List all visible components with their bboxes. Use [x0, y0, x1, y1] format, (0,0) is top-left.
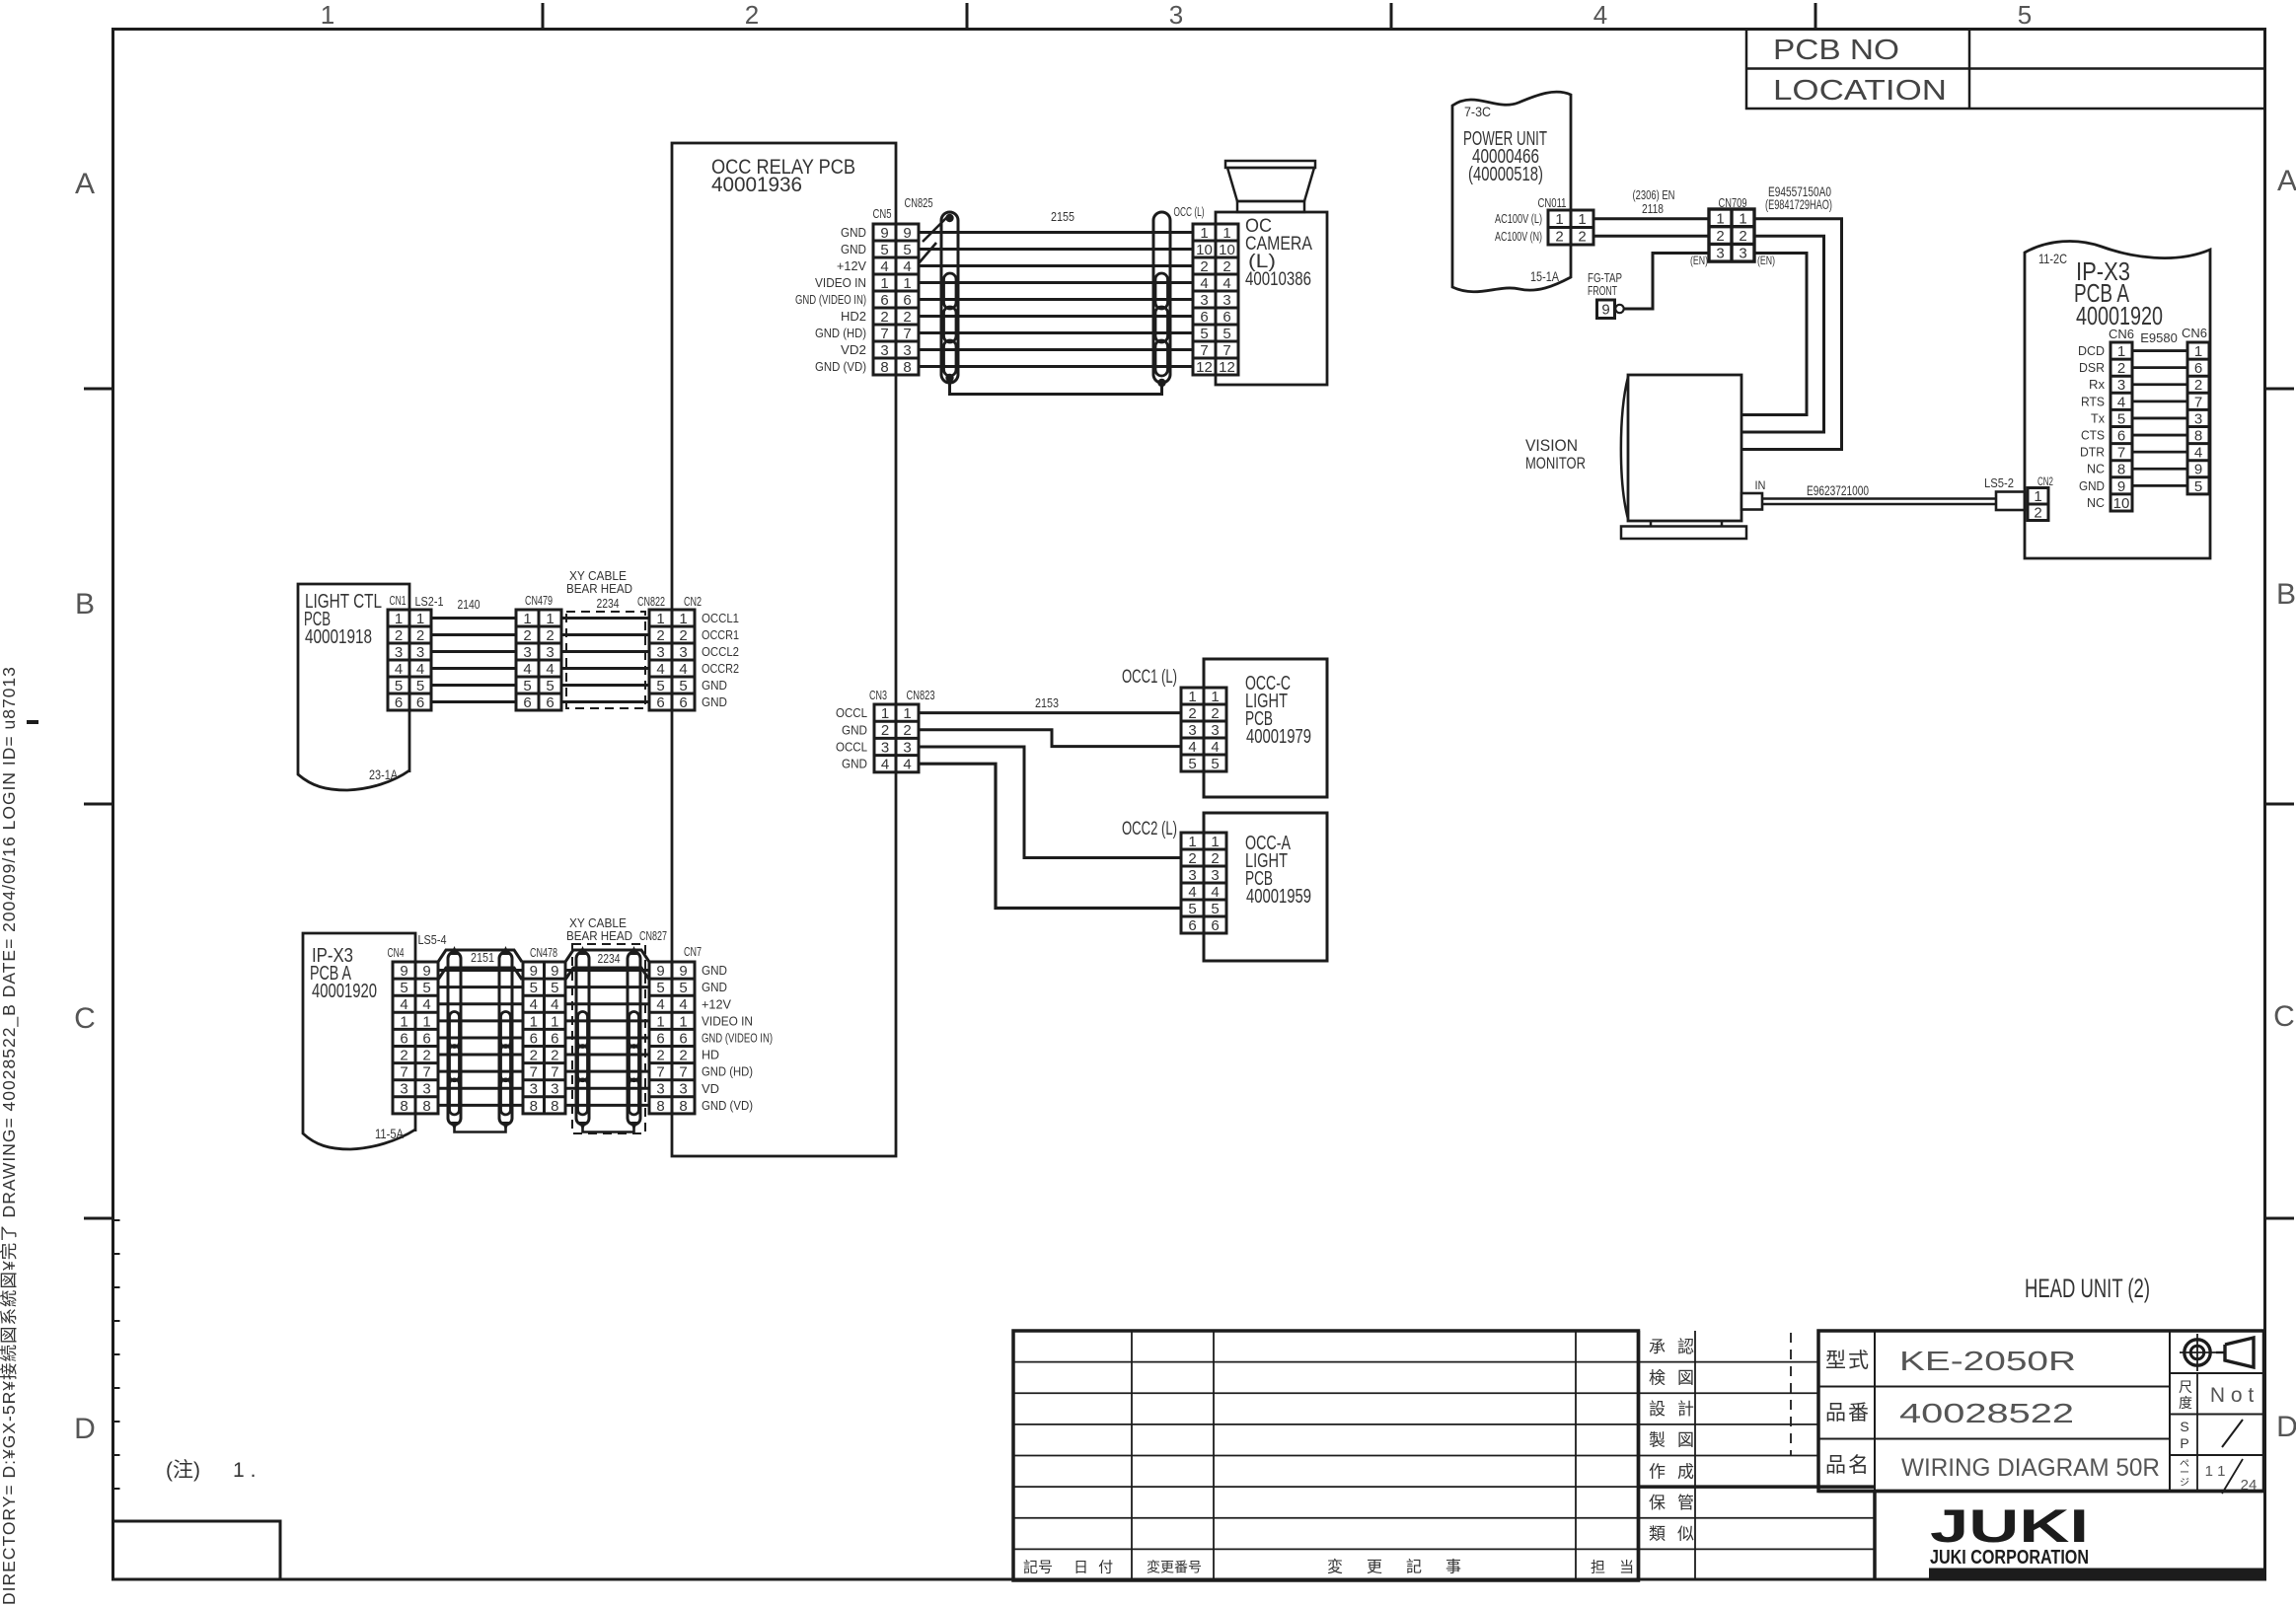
svg-text:1: 1 — [1200, 225, 1208, 242]
svg-text:3: 3 — [1188, 867, 1196, 884]
svg-text:3: 3 — [551, 1081, 558, 1098]
svg-text:8: 8 — [656, 1098, 664, 1115]
svg-text:2: 2 — [400, 1047, 407, 1063]
svg-text:GND (HD): GND (HD) — [815, 326, 866, 340]
svg-text:40001979: 40001979 — [1246, 726, 1311, 748]
svg-text:9: 9 — [422, 963, 430, 980]
svg-text:2153: 2153 — [1035, 695, 1059, 710]
connector OCC(L) camera pins — [1193, 224, 1238, 376]
svg-text:5: 5 — [1222, 326, 1230, 342]
svg-text:9: 9 — [2194, 462, 2202, 478]
svg-text:C: C — [2273, 1000, 2295, 1033]
svg-text:VIDEO IN: VIDEO IN — [702, 1013, 753, 1028]
connector CN6 (IP-X3) — [2111, 342, 2132, 512]
svg-text:BEAR HEAD: BEAR HEAD — [566, 581, 632, 596]
svg-text:3: 3 — [1211, 867, 1219, 884]
svg-text:OCCL2: OCCL2 — [702, 644, 739, 659]
svg-text:6: 6 — [679, 1030, 687, 1047]
page cell — [2170, 1455, 2264, 1494]
svg-text:Rx: Rx — [2089, 377, 2106, 392]
connector CN822/CN2 — [649, 610, 695, 711]
svg-text:2140: 2140 — [458, 597, 481, 612]
svg-text:型式: 型式 — [1825, 1350, 1871, 1372]
svg-text:6: 6 — [400, 1030, 407, 1047]
svg-text:6: 6 — [546, 694, 554, 711]
svg-text:9: 9 — [679, 963, 687, 980]
svg-text:6: 6 — [416, 694, 424, 711]
svg-text:製図: 製図 — [1649, 1431, 1706, 1450]
svg-text:8: 8 — [400, 1098, 407, 1115]
svg-text:AC100V (N): AC100V (N) — [1495, 229, 1542, 244]
svg-text:GND (VD): GND (VD) — [702, 1098, 753, 1113]
svg-text:3: 3 — [656, 1081, 664, 1098]
svg-text:2: 2 — [745, 0, 759, 30]
svg-text:1: 1 — [2034, 488, 2041, 505]
svg-text:6: 6 — [880, 292, 888, 309]
svg-text:9: 9 — [903, 225, 911, 242]
svg-text:4: 4 — [2117, 394, 2125, 410]
svg-text:GND: GND — [842, 757, 867, 771]
svg-text:(EN): (EN) — [1690, 254, 1708, 267]
svg-text:4: 4 — [679, 661, 687, 678]
svg-text:2: 2 — [679, 1047, 687, 1063]
svg-text:OCCL: OCCL — [836, 740, 867, 755]
svg-text:6: 6 — [1200, 309, 1208, 326]
wires CN4 chain — [438, 971, 649, 1106]
svg-text:CN825: CN825 — [905, 195, 933, 210]
svg-text:2: 2 — [903, 309, 911, 326]
svg-text:DIRECTORY= D:¥GX-5R¥接続図系統図¥完了: DIRECTORY= D:¥GX-5R¥接続図系統図¥完了 DRAWING= 4… — [0, 666, 20, 1605]
svg-text:D: D — [2276, 1411, 2296, 1443]
svg-text:7: 7 — [400, 1064, 407, 1081]
svg-text:NC: NC — [2087, 495, 2105, 510]
svg-text:3: 3 — [679, 644, 687, 661]
svg-text:2: 2 — [1716, 228, 1724, 245]
label XY CABLE BEAR HEAD (lower) — [566, 915, 632, 943]
svg-text:日 付: 日 付 — [1074, 1560, 1116, 1576]
shield return wire — [950, 381, 1162, 395]
CN2 signal labels — [702, 611, 739, 709]
svg-text:CN479: CN479 — [525, 593, 553, 608]
svg-text:6: 6 — [530, 1030, 538, 1047]
svg-text:CN2: CN2 — [2037, 474, 2053, 488]
svg-text:2118: 2118 — [1642, 201, 1664, 216]
svg-text:3: 3 — [1211, 722, 1219, 739]
svg-text:2: 2 — [656, 627, 664, 644]
connector CN3/CN823 — [874, 704, 919, 773]
svg-text:3: 3 — [656, 644, 664, 661]
wires CN823 to OCC light PCBs — [919, 713, 1181, 909]
svg-text:品名: 品名 — [1825, 1454, 1871, 1477]
CN3 signal labels — [836, 705, 867, 771]
svg-text:OCCR2: OCCR2 — [702, 661, 739, 676]
svg-text:4: 4 — [1200, 275, 1208, 292]
svg-text:3: 3 — [546, 644, 554, 661]
small fold ticks — [27, 722, 120, 1489]
svg-text:RTS: RTS — [2081, 394, 2105, 408]
PCB block LIGHT CTL PCB 40001918 — [298, 584, 409, 790]
svg-text:5: 5 — [400, 980, 407, 996]
svg-text:2234: 2234 — [597, 596, 620, 611]
svg-text:9: 9 — [656, 963, 664, 980]
cable E9623721000 — [1762, 482, 1996, 504]
svg-text:23-1A: 23-1A — [369, 766, 399, 782]
svg-text:3: 3 — [422, 1081, 430, 1098]
label (2306) EN / 2118 — [1633, 187, 1675, 216]
camera lens — [1225, 161, 1315, 212]
svg-text:3: 3 — [880, 342, 888, 359]
svg-text:GND: GND — [702, 963, 727, 978]
svg-text:VD: VD — [702, 1081, 719, 1096]
svg-text:2: 2 — [1211, 705, 1219, 722]
svg-text:6: 6 — [422, 1030, 430, 1047]
svg-text:VISION: VISION — [1525, 436, 1578, 455]
cable 2151 shield drawing — [438, 946, 522, 1132]
svg-text:5: 5 — [1211, 756, 1219, 772]
svg-text:8: 8 — [903, 359, 911, 376]
svg-text:1: 1 — [523, 611, 531, 627]
svg-text:IN: IN — [1755, 478, 1766, 492]
svg-text:BEAR HEAD: BEAR HEAD — [566, 928, 632, 943]
svg-text:2: 2 — [523, 627, 531, 644]
svg-text:5: 5 — [2194, 478, 2202, 495]
svg-text:1: 1 — [1578, 211, 1586, 228]
svg-text:4: 4 — [400, 996, 407, 1013]
svg-text:B: B — [75, 588, 95, 620]
svg-text:5: 5 — [880, 242, 888, 258]
svg-text:2: 2 — [546, 627, 554, 644]
svg-text:CN2: CN2 — [684, 594, 702, 609]
svg-text:9: 9 — [551, 963, 558, 980]
svg-text:E9580: E9580 — [2140, 330, 2178, 345]
svg-text:CN6: CN6 — [2109, 327, 2134, 341]
title info block — [1818, 1331, 2264, 1492]
svg-text:4: 4 — [546, 661, 554, 678]
svg-text:7: 7 — [422, 1064, 430, 1081]
svg-text:1: 1 — [1716, 210, 1724, 227]
svg-text:AC100V (L): AC100V (L) — [1495, 211, 1542, 226]
wires CN825 to OCC(L) camera — [919, 233, 1193, 367]
svg-text:9: 9 — [880, 225, 888, 242]
svg-text:LS5-2: LS5-2 — [1984, 475, 2014, 490]
svg-text:類似: 類似 — [1649, 1525, 1706, 1544]
svg-text:2: 2 — [1739, 228, 1746, 245]
svg-text:JUKI: JUKI — [1930, 1499, 2089, 1552]
svg-text:8: 8 — [679, 1098, 687, 1115]
svg-text:ジ: ジ — [2180, 1478, 2189, 1489]
svg-text:2: 2 — [2034, 505, 2041, 522]
svg-text:1: 1 — [422, 1013, 430, 1030]
svg-text:2: 2 — [422, 1047, 430, 1063]
svg-text:4: 4 — [679, 996, 687, 1013]
svg-text:8: 8 — [880, 359, 888, 376]
svg-text:8: 8 — [422, 1098, 430, 1115]
svg-text:HEAD UNIT (2): HEAD UNIT (2) — [2025, 1274, 2150, 1303]
svg-text:2155: 2155 — [1051, 209, 1074, 224]
svg-text:3: 3 — [881, 739, 889, 756]
svg-text:4: 4 — [530, 996, 538, 1013]
svg-text:1: 1 — [679, 611, 687, 627]
svg-text:度: 度 — [2179, 1395, 2192, 1411]
svg-text:保管: 保管 — [1649, 1494, 1706, 1512]
svg-text:担 当: 担 当 — [1591, 1560, 1639, 1576]
svg-text:HD2: HD2 — [841, 309, 866, 324]
svg-text:11-5A: 11-5A — [375, 1126, 405, 1141]
PCB NO / LOCATION table — [1746, 30, 2265, 109]
svg-text:10: 10 — [1196, 242, 1213, 258]
svg-text:GND (HD): GND (HD) — [702, 1064, 753, 1079]
svg-text:尺: 尺 — [2179, 1379, 2192, 1395]
svg-text:8: 8 — [551, 1098, 558, 1115]
POWER UNIT 40000466 block — [1452, 92, 1571, 292]
svg-text:1: 1 — [1555, 211, 1563, 228]
svg-text:6: 6 — [2194, 360, 2202, 377]
svg-text:4: 4 — [395, 661, 403, 678]
svg-text:1: 1 — [551, 1013, 558, 1030]
svg-text:11-2C: 11-2C — [2038, 251, 2067, 266]
svg-text:CN822: CN822 — [637, 594, 665, 609]
svg-text:6: 6 — [551, 1030, 558, 1047]
connector CN011 — [1548, 210, 1593, 246]
svg-text:3: 3 — [1716, 246, 1724, 262]
svg-text:C: C — [74, 1002, 96, 1035]
svg-text:5: 5 — [903, 242, 911, 258]
svg-text:4: 4 — [1222, 275, 1230, 292]
svg-text:4: 4 — [551, 996, 558, 1013]
svg-text:5: 5 — [1200, 326, 1208, 342]
svg-text:OCC2 (L): OCC2 (L) — [1122, 819, 1177, 839]
svg-text:A: A — [2277, 165, 2296, 197]
svg-text:5: 5 — [546, 678, 554, 694]
svg-text:FRONT: FRONT — [1588, 283, 1617, 298]
svg-text:GND: GND — [841, 225, 866, 240]
connector OCC-A connector — [1181, 833, 1226, 934]
JUKI logo block — [1818, 1492, 2264, 1581]
svg-text:2: 2 — [1555, 229, 1563, 246]
monitor IN connector — [1741, 478, 1766, 510]
svg-text:2: 2 — [656, 1047, 664, 1063]
connector CN2 (IP-X3) — [2028, 488, 2048, 522]
svg-text:5: 5 — [656, 980, 664, 996]
svg-text:6: 6 — [1188, 917, 1196, 934]
svg-text:2: 2 — [881, 722, 889, 739]
connector CN1/LS2-1 — [388, 610, 431, 711]
svg-text:+12V: +12V — [702, 996, 731, 1011]
svg-text:検図: 検図 — [1649, 1368, 1706, 1387]
svg-text:CN823: CN823 — [907, 688, 935, 702]
svg-text:5: 5 — [679, 678, 687, 694]
svg-text:1: 1 — [1211, 834, 1219, 850]
svg-text:OCCL1: OCCL1 — [702, 611, 739, 625]
plug LS5-2 — [1984, 475, 2025, 510]
CN6 signal labels — [2078, 343, 2106, 510]
svg-text:7: 7 — [551, 1064, 558, 1081]
svg-text:6: 6 — [903, 292, 911, 309]
svg-text:4: 4 — [422, 996, 430, 1013]
svg-text:PCB NO: PCB NO — [1773, 35, 1899, 66]
approval dashed divider — [1790, 1333, 1792, 1456]
cable 2155 shield at camera — [1153, 212, 1170, 387]
svg-text:5: 5 — [2117, 410, 2125, 427]
OC CAMERA body — [1216, 212, 1327, 385]
revision history table — [1013, 1331, 1639, 1580]
svg-text:5: 5 — [679, 980, 687, 996]
twisted pair marks camera side — [1155, 273, 1168, 376]
svg-text:5: 5 — [395, 678, 403, 694]
svg-text:1: 1 — [1188, 834, 1196, 850]
svg-text:2: 2 — [1578, 229, 1586, 246]
svg-text:CN4: CN4 — [388, 945, 405, 960]
svg-text:CN5: CN5 — [873, 206, 892, 221]
PCB block OCC RELAY PCB 40001936 — [672, 143, 896, 1156]
svg-text:OCC1 (L): OCC1 (L) — [1122, 667, 1177, 688]
labels E94557150A0 — [1765, 183, 1832, 212]
svg-text:1: 1 — [1739, 210, 1746, 227]
projection symbol — [2180, 1334, 2254, 1371]
label XY CABLE BEAR HEAD (upper) — [566, 568, 632, 596]
svg-text:CN6: CN6 — [2182, 326, 2207, 340]
svg-text:5: 5 — [422, 980, 430, 996]
svg-text:3: 3 — [1739, 246, 1746, 262]
svg-text:B: B — [2276, 578, 2296, 611]
connector CN827/CN7 — [649, 962, 695, 1115]
svg-text:10: 10 — [2113, 495, 2130, 512]
svg-text:2: 2 — [416, 627, 424, 644]
svg-text:10: 10 — [1219, 242, 1235, 258]
cable 2234 dashed shield box (lower) — [572, 944, 645, 1133]
svg-text:3: 3 — [903, 739, 911, 756]
svg-text:6: 6 — [1211, 917, 1219, 934]
svg-text:5: 5 — [530, 980, 538, 996]
svg-text:4: 4 — [903, 258, 911, 275]
svg-text:1 1: 1 1 — [2205, 1463, 2226, 1480]
plot directory annotation — [0, 666, 20, 1605]
svg-text:4: 4 — [1593, 0, 1607, 30]
svg-text:(注): (注) — [166, 1459, 200, 1482]
svg-text:7: 7 — [1200, 342, 1208, 359]
SP cell — [2170, 1415, 2264, 1452]
svg-text:設計: 設計 — [1649, 1400, 1706, 1419]
PCB block IP-X3 PCB A 40001920 (lower) — [303, 933, 415, 1149]
svg-text:3: 3 — [903, 342, 911, 359]
PCB block IP-X3 PCB A 40001920 (right) — [2025, 241, 2210, 558]
svg-text:4: 4 — [523, 661, 531, 678]
svg-text:CN011: CN011 — [1538, 195, 1567, 210]
svg-text:OCC (L): OCC (L) — [1174, 204, 1205, 219]
svg-text:12: 12 — [1196, 359, 1213, 376]
svg-text:2: 2 — [1188, 705, 1196, 722]
cable 2234 dashed shield box (upper) — [566, 612, 645, 708]
svg-text:LS5-4: LS5-4 — [418, 932, 447, 947]
svg-text:2: 2 — [1222, 258, 1230, 275]
svg-text:CN1: CN1 — [390, 593, 407, 608]
svg-text:2: 2 — [395, 627, 403, 644]
svg-text:DCD: DCD — [2078, 343, 2105, 358]
svg-text:1: 1 — [400, 1013, 407, 1030]
svg-text:7: 7 — [880, 326, 888, 342]
FG-TAP FRONT tap — [1588, 254, 1709, 319]
svg-text:6: 6 — [1222, 309, 1230, 326]
svg-text:GND: GND — [842, 722, 867, 737]
svg-text:3: 3 — [416, 644, 424, 661]
svg-text:1: 1 — [656, 1013, 664, 1030]
svg-text:N o t: N o t — [2210, 1384, 2255, 1407]
svg-text:LOCATION: LOCATION — [1773, 75, 1947, 107]
svg-text:GND (VIDEO IN): GND (VIDEO IN) — [702, 1030, 773, 1045]
svg-text:作成: 作成 — [1649, 1462, 1706, 1481]
connector CN479 — [516, 610, 561, 711]
svg-text:6: 6 — [2117, 427, 2125, 444]
bottom-left box — [113, 1521, 281, 1579]
svg-text:5: 5 — [1211, 901, 1219, 917]
svg-text:5: 5 — [523, 678, 531, 694]
svg-text:GND: GND — [702, 980, 727, 994]
svg-text:6: 6 — [395, 694, 403, 711]
svg-text:2: 2 — [880, 309, 888, 326]
svg-text:Tx: Tx — [2091, 410, 2105, 425]
svg-text:CN7: CN7 — [684, 944, 702, 959]
svg-text:5: 5 — [551, 980, 558, 996]
connector CN709 — [1709, 209, 1754, 262]
svg-text:2151: 2151 — [471, 950, 494, 965]
svg-text:1: 1 — [395, 611, 403, 627]
side row ticks — [84, 389, 2294, 1218]
svg-text:9: 9 — [2117, 478, 2125, 495]
svg-text:1: 1 — [1222, 225, 1230, 242]
svg-text:1: 1 — [321, 0, 334, 30]
svg-text:(E9841729HAO): (E9841729HAO) — [1765, 196, 1832, 212]
svg-text:40001936: 40001936 — [711, 174, 802, 196]
svg-text:品番: 品番 — [1825, 1402, 1871, 1424]
svg-text:3: 3 — [1169, 0, 1183, 30]
svg-text:40001918: 40001918 — [305, 626, 372, 648]
svg-text:1: 1 — [880, 275, 888, 292]
CN7 signal labels — [702, 963, 773, 1113]
svg-text:1: 1 — [1211, 689, 1219, 705]
svg-text:GND: GND — [2079, 478, 2105, 493]
svg-text:2: 2 — [2117, 360, 2125, 377]
svg-text:(40000518): (40000518) — [1468, 164, 1543, 185]
scale cell — [2170, 1373, 2264, 1493]
cable 2155 shield at CN825 — [919, 212, 958, 383]
svg-text:40001920: 40001920 — [312, 981, 377, 1002]
wires CN1 chain — [431, 619, 649, 702]
svg-text:CN3: CN3 — [869, 688, 887, 702]
svg-text:2: 2 — [1200, 258, 1208, 275]
svg-text:5: 5 — [2018, 0, 2032, 30]
svg-text:HD: HD — [702, 1048, 719, 1062]
connector OCC-C connector — [1181, 688, 1226, 772]
svg-text:8: 8 — [2194, 427, 2202, 444]
svg-text:3: 3 — [2194, 410, 2202, 427]
svg-text:7: 7 — [903, 326, 911, 342]
svg-text:OCCL: OCCL — [836, 705, 867, 720]
svg-text:9: 9 — [1601, 302, 1609, 319]
svg-text:S: S — [2180, 1419, 2188, 1434]
svg-text:4: 4 — [416, 661, 424, 678]
connector CN478 — [523, 962, 565, 1115]
column labels 1-5 — [321, 0, 2032, 30]
svg-text:KE-2050R: KE-2050R — [1899, 1346, 2076, 1376]
svg-text:NC: NC — [2087, 462, 2105, 476]
svg-text:4: 4 — [880, 258, 888, 275]
svg-text:4: 4 — [1211, 884, 1219, 901]
CN5 signal labels — [795, 225, 866, 374]
wires CN011 to CN709 — [1593, 219, 1709, 236]
svg-text:7: 7 — [2117, 445, 2125, 462]
svg-text:JUKI CORPORATION: JUKI CORPORATION — [1930, 1547, 2089, 1569]
row labels A-D — [74, 165, 2296, 1445]
